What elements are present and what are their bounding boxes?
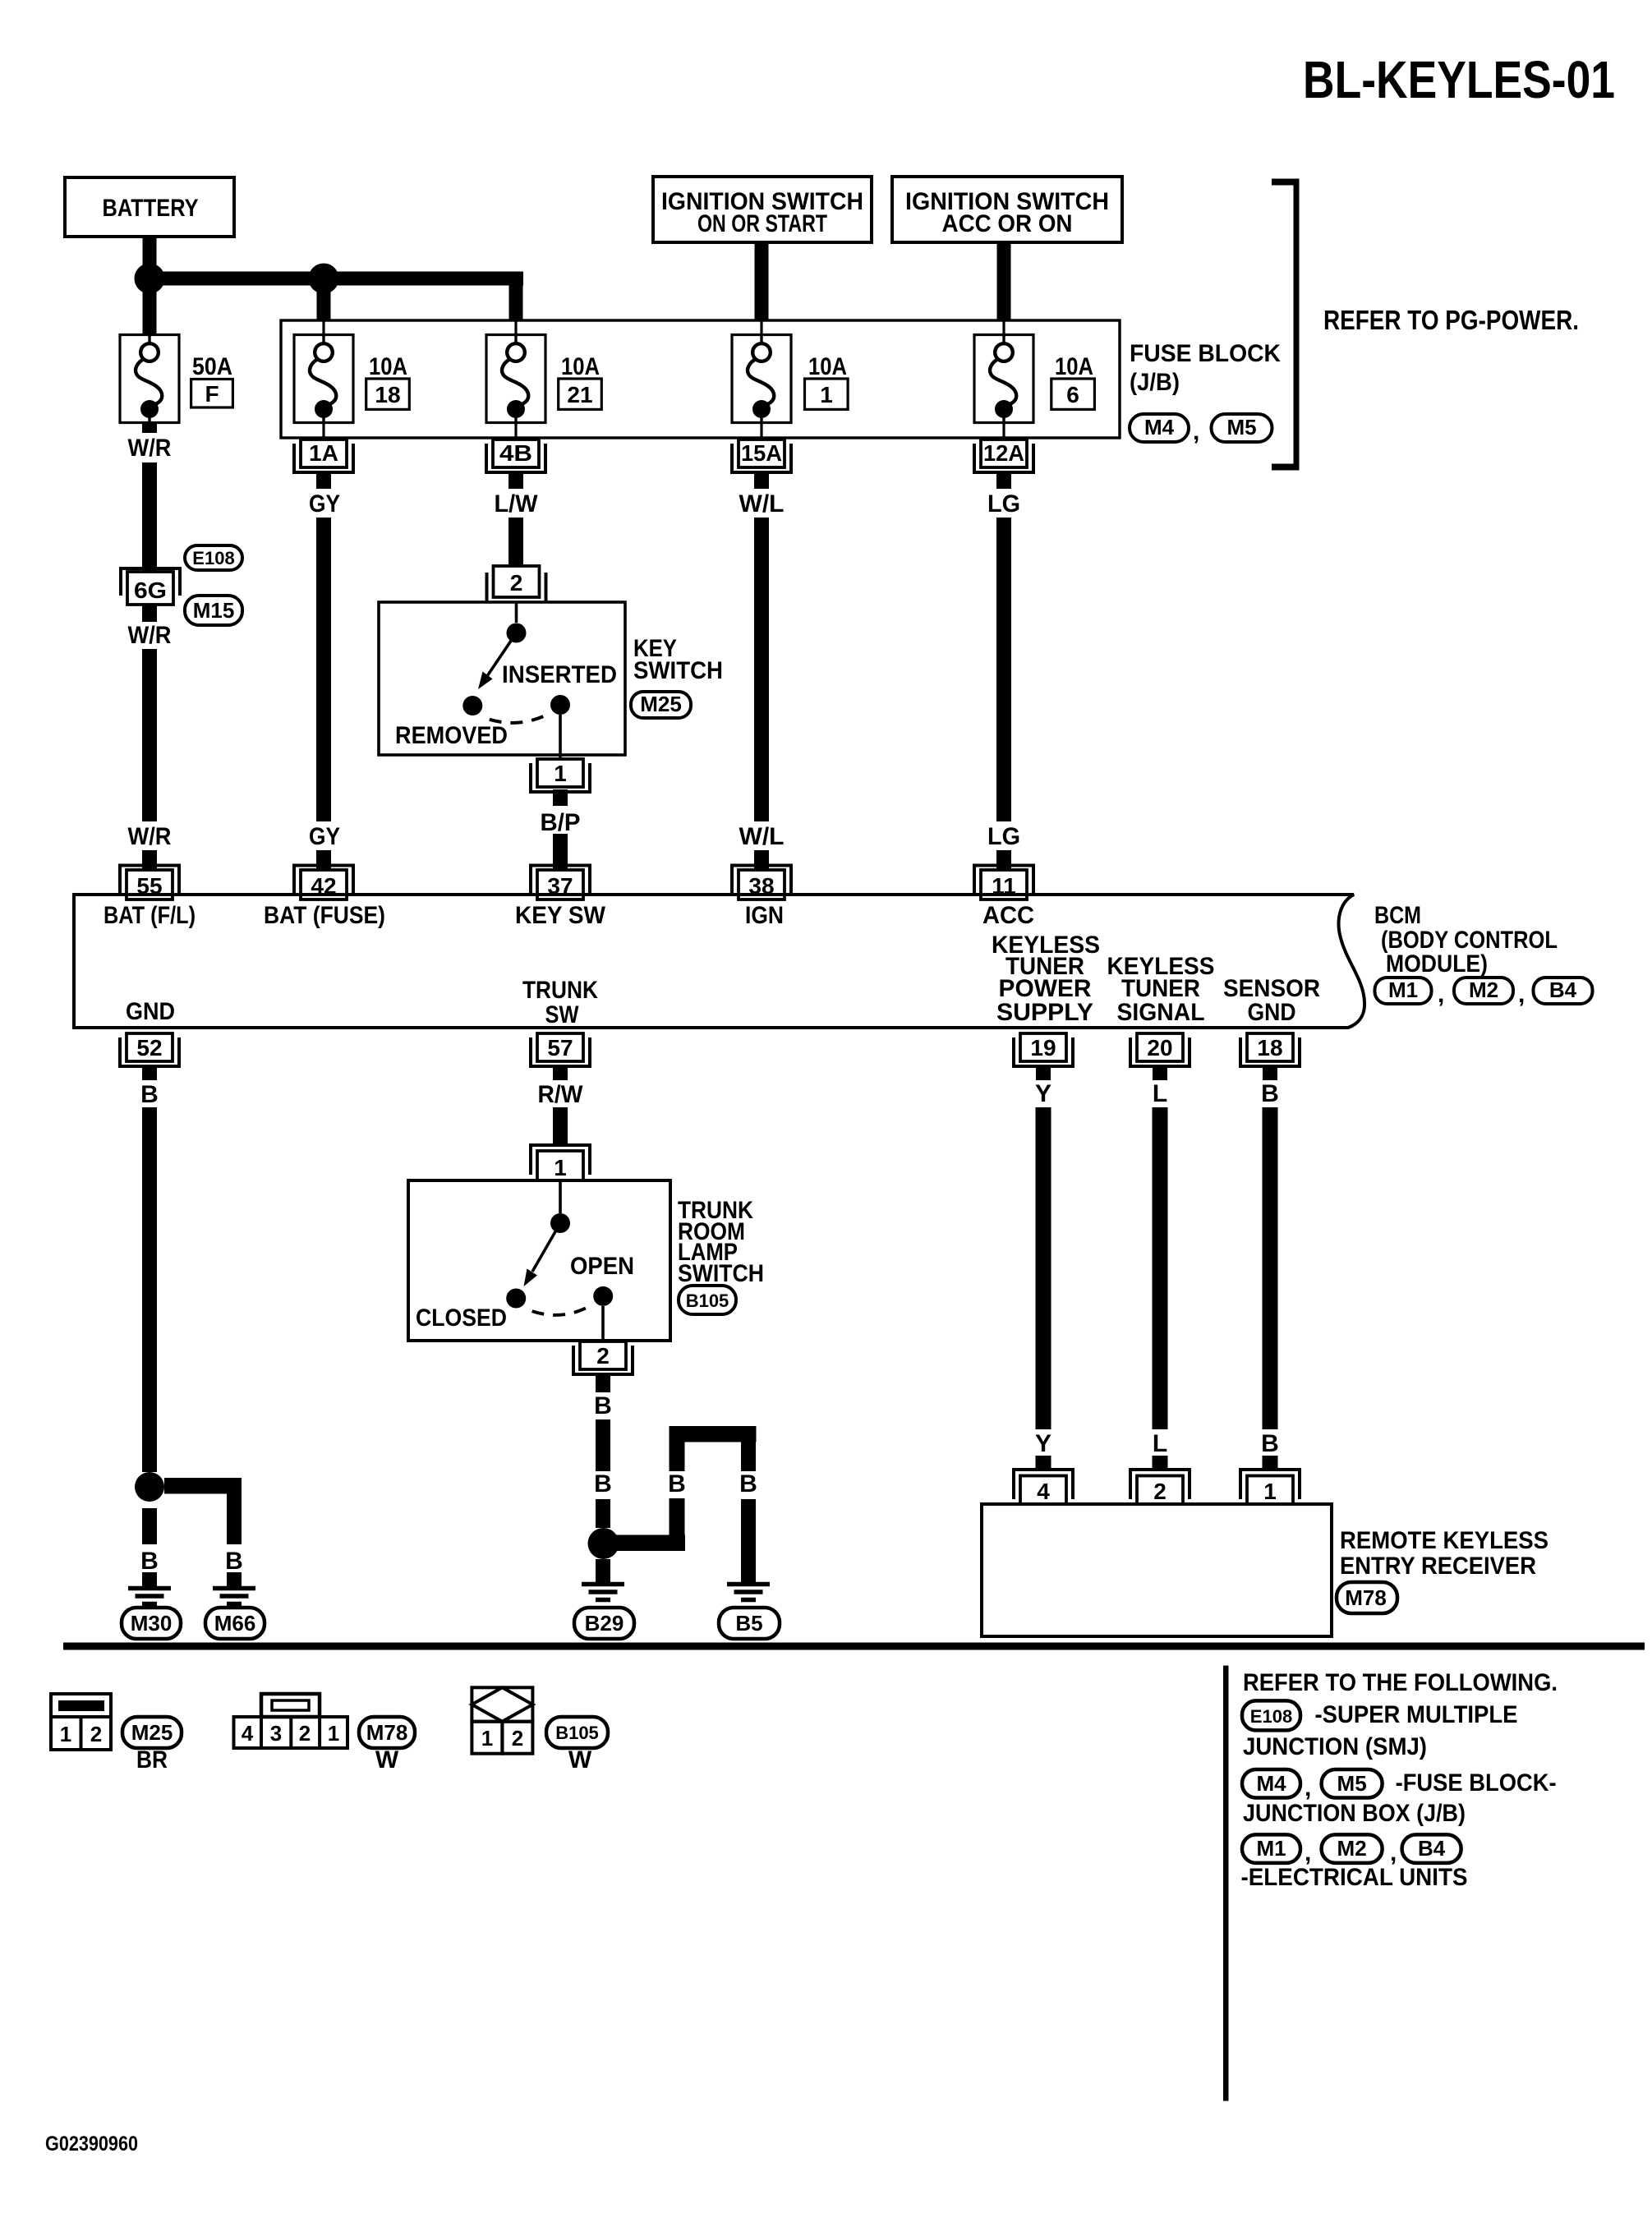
svg-text:M78: M78	[1345, 1585, 1387, 1610]
svg-text:MODULE): MODULE)	[1386, 950, 1488, 978]
svg-text:JUNCTION BOX (J/B): JUNCTION BOX (J/B)	[1243, 1800, 1466, 1827]
svg-text:ENTRY RECEIVER: ENTRY RECEIVER	[1340, 1553, 1536, 1580]
svg-text:B: B	[594, 1470, 612, 1498]
svg-text:10A: 10A	[1055, 353, 1093, 380]
svg-text:BAT (F/L): BAT (F/L)	[104, 902, 196, 929]
svg-text:2: 2	[512, 1726, 523, 1751]
svg-text:W/L: W/L	[739, 490, 785, 518]
svg-text:55: 55	[136, 873, 162, 899]
svg-text:BAT (FUSE): BAT (FUSE)	[264, 902, 385, 929]
svg-text:REMOVED: REMOVED	[395, 722, 508, 749]
svg-text:M4: M4	[1256, 1771, 1286, 1796]
svg-text:M30: M30	[131, 1611, 173, 1636]
svg-text:42: 42	[311, 873, 336, 899]
svg-text:,: ,	[1193, 418, 1199, 445]
svg-text:REFER TO PG-POWER.: REFER TO PG-POWER.	[1323, 305, 1579, 335]
svg-text:W/L: W/L	[739, 823, 785, 850]
svg-text:1: 1	[820, 382, 833, 407]
svg-text:4: 4	[1037, 1479, 1050, 1504]
svg-text:OPEN: OPEN	[570, 1253, 634, 1280]
svg-text:G02390960: G02390960	[45, 2132, 138, 2155]
svg-text:W: W	[568, 1746, 592, 1774]
svg-text:IGN: IGN	[745, 902, 784, 929]
svg-text:2: 2	[510, 570, 523, 596]
svg-text:REFER TO THE FOLLOWING.: REFER TO THE FOLLOWING.	[1243, 1669, 1558, 1696]
svg-text:W/R: W/R	[128, 622, 172, 649]
svg-text:INSERTED: INSERTED	[502, 661, 617, 688]
svg-text:B105: B105	[555, 1723, 599, 1743]
svg-text:B5: B5	[735, 1611, 762, 1636]
svg-text:M2: M2	[1469, 978, 1498, 1002]
svg-text:M78: M78	[366, 1720, 408, 1745]
svg-text:LG: LG	[987, 490, 1020, 518]
svg-text:-ELECTRICAL UNITS: -ELECTRICAL UNITS	[1241, 1864, 1468, 1891]
svg-text:15A: 15A	[741, 440, 782, 466]
svg-text:1: 1	[554, 761, 567, 786]
svg-text:2: 2	[90, 1722, 102, 1746]
svg-text:M5: M5	[1337, 1771, 1367, 1796]
svg-text:CLOSED: CLOSED	[416, 1304, 507, 1332]
svg-text:(J/B): (J/B)	[1130, 369, 1180, 396]
svg-text:,: ,	[1305, 1774, 1311, 1801]
svg-text:M25: M25	[131, 1720, 173, 1745]
svg-text:W/R: W/R	[128, 435, 172, 462]
svg-text:B29: B29	[585, 1611, 624, 1636]
svg-text:B: B	[1261, 1080, 1279, 1107]
svg-text:B: B	[225, 1548, 243, 1575]
svg-text:,: ,	[1438, 981, 1444, 1008]
svg-text:,: ,	[1305, 1839, 1311, 1866]
svg-text:B: B	[594, 1392, 612, 1419]
svg-text:TRUNK: TRUNK	[522, 977, 598, 1004]
svg-text:E108: E108	[192, 548, 234, 568]
svg-text:GY: GY	[309, 490, 340, 518]
svg-text:BATTERY: BATTERY	[103, 195, 199, 222]
svg-text:11: 11	[992, 873, 1016, 899]
svg-text:M66: M66	[214, 1611, 256, 1636]
svg-text:10A: 10A	[808, 353, 847, 380]
svg-text:BCM: BCM	[1374, 902, 1421, 929]
svg-text:L: L	[1153, 1430, 1167, 1457]
svg-text:ON OR START: ON OR START	[697, 210, 827, 237]
svg-text:M4: M4	[1144, 415, 1175, 439]
svg-text:1: 1	[481, 1726, 493, 1751]
svg-text:W: W	[375, 1746, 399, 1774]
svg-text:R/W: R/W	[538, 1081, 584, 1108]
svg-text:GY: GY	[309, 823, 340, 850]
svg-text:4B: 4B	[499, 440, 532, 466]
svg-text:B: B	[739, 1470, 757, 1498]
svg-text:2: 2	[299, 1721, 311, 1746]
svg-text:ACC: ACC	[982, 902, 1034, 929]
svg-text:,: ,	[1390, 1839, 1397, 1866]
svg-text:12A: 12A	[983, 440, 1024, 466]
svg-text:1: 1	[60, 1722, 71, 1746]
svg-text:KEY SW: KEY SW	[515, 902, 606, 929]
svg-text:M15: M15	[193, 598, 235, 623]
svg-text:SIGNAL: SIGNAL	[1117, 999, 1205, 1026]
svg-text:L/W: L/W	[495, 490, 539, 518]
svg-text:SWITCH: SWITCH	[633, 657, 723, 684]
svg-text:B4: B4	[1549, 978, 1577, 1002]
svg-text:2: 2	[1153, 1479, 1167, 1504]
svg-text:3: 3	[270, 1721, 282, 1746]
svg-text:50A: 50A	[192, 353, 232, 380]
svg-text:ACC OR ON: ACC OR ON	[942, 210, 1073, 237]
svg-text:FUSE BLOCK: FUSE BLOCK	[1130, 340, 1281, 367]
svg-text:19: 19	[1030, 1035, 1056, 1060]
svg-text:37: 37	[547, 873, 573, 899]
svg-text:6G: 6G	[134, 577, 167, 603]
svg-text:LG: LG	[987, 823, 1020, 850]
svg-text:1A: 1A	[309, 440, 338, 466]
svg-text:JUNCTION (SMJ): JUNCTION (SMJ)	[1243, 1733, 1427, 1760]
svg-text:B: B	[140, 1548, 159, 1575]
svg-text:SUPPLY: SUPPLY	[996, 999, 1093, 1026]
svg-text:6: 6	[1066, 382, 1079, 407]
svg-text:W/R: W/R	[128, 823, 172, 850]
svg-text:,: ,	[1518, 981, 1525, 1008]
svg-text:10A: 10A	[369, 353, 407, 380]
svg-text:4: 4	[242, 1721, 254, 1746]
svg-text:18: 18	[1257, 1035, 1282, 1060]
svg-text:E108: E108	[1250, 1706, 1292, 1727]
svg-text:10A: 10A	[561, 353, 600, 380]
svg-text:20: 20	[1147, 1035, 1172, 1060]
svg-text:GND: GND	[126, 998, 175, 1025]
svg-text:Y: Y	[1035, 1430, 1051, 1457]
svg-text:M2: M2	[1337, 1836, 1367, 1861]
svg-text:21: 21	[567, 382, 592, 407]
svg-text:M5: M5	[1226, 415, 1256, 439]
svg-text:SW: SW	[545, 1001, 580, 1028]
svg-text:BR: BR	[136, 1746, 168, 1774]
svg-text:F: F	[205, 381, 219, 407]
svg-text:B105: B105	[686, 1291, 729, 1311]
svg-text:B: B	[1261, 1430, 1279, 1457]
svg-text:Y: Y	[1035, 1080, 1051, 1107]
svg-text:52: 52	[136, 1035, 162, 1060]
svg-text:M1: M1	[1256, 1836, 1286, 1861]
svg-text:B: B	[668, 1470, 686, 1498]
svg-text:B: B	[140, 1081, 159, 1108]
svg-text:SWITCH: SWITCH	[678, 1260, 764, 1287]
svg-text:B4: B4	[1418, 1836, 1446, 1861]
svg-text:-SUPER MULTIPLE: -SUPER MULTIPLE	[1315, 1701, 1518, 1728]
svg-text:1: 1	[328, 1721, 339, 1746]
svg-text:L: L	[1153, 1080, 1167, 1107]
svg-text:BL-KEYLES-01: BL-KEYLES-01	[1303, 50, 1615, 109]
svg-text:18: 18	[375, 382, 400, 407]
svg-text:1: 1	[1263, 1479, 1277, 1504]
svg-text:M25: M25	[640, 692, 682, 716]
svg-text:-FUSE BLOCK-: -FUSE BLOCK-	[1396, 1769, 1557, 1797]
svg-text:B/P: B/P	[541, 809, 581, 836]
svg-text:REMOTE KEYLESS: REMOTE KEYLESS	[1340, 1527, 1548, 1554]
svg-text:57: 57	[547, 1035, 573, 1060]
svg-text:GND: GND	[1248, 999, 1296, 1026]
svg-text:2: 2	[596, 1343, 610, 1369]
svg-text:M1: M1	[1388, 978, 1418, 1002]
svg-text:1: 1	[554, 1155, 567, 1180]
svg-text:38: 38	[748, 873, 774, 899]
